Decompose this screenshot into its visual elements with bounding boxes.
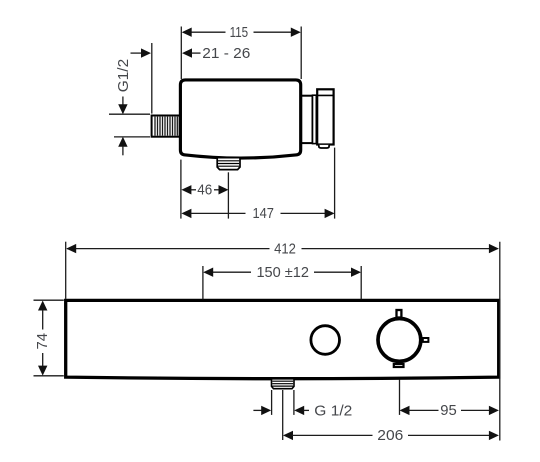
svg-text:46: 46: [197, 182, 212, 199]
extension line wall plane (21-26): [151, 43, 153, 114]
extension line right of body top (115): [300, 27, 302, 80]
dial bottom tab: [394, 364, 404, 367]
svg-text:206: 206: [377, 427, 403, 444]
svg-text:G 1/2: G 1/2: [314, 402, 352, 419]
extension line body left bottom (46 / 147): [180, 160, 182, 219]
svg-text:150 ±12: 150 ±12: [256, 264, 309, 281]
end cap bottom tab: [319, 145, 329, 148]
extension line 74 bottom: [34, 375, 64, 377]
extension line outlet centre (206): [282, 390, 284, 440]
extension line 150 left: [202, 266, 204, 299]
extension line outlet centre (46 / 147): [227, 172, 229, 218]
thermostat dial (large circle): [378, 319, 421, 362]
thin ring piece: [313, 95, 317, 143]
extension line outlet right: [293, 390, 295, 415]
dimension 21 - 26: [131, 45, 251, 62]
svg-text:G1/2: G1/2: [115, 59, 132, 93]
dimension 115: [182, 24, 301, 41]
extension line outlet left: [271, 390, 273, 415]
bottom outlet thread (front view): [272, 379, 295, 389]
extension line left of body top (115 / 21-26): [180, 27, 182, 80]
svg-text:21 - 26: 21 - 26: [202, 45, 250, 62]
dimension 46: [181, 182, 228, 199]
svg-text:412: 412: [274, 240, 296, 257]
dimension 147: [181, 205, 334, 222]
extension line dial centre (95): [399, 380, 401, 415]
outlet width dimension + G 1/2 label: [253, 402, 352, 419]
G1/2 vertical dimension arrows + extension lines: [109, 104, 150, 155]
small control button: [311, 326, 340, 355]
end cap / handle (side view): [317, 89, 333, 144]
svg-text:115: 115: [230, 24, 249, 41]
extension line cap right (147): [334, 148, 336, 219]
dimension 150 ±12: [203, 264, 361, 281]
dimension 95: [400, 402, 499, 419]
svg-text:74: 74: [34, 333, 51, 350]
dimension 206: [283, 427, 499, 444]
shower tablet body (front view): [66, 300, 499, 378]
extension line body right (412 / 95 / 206): [499, 242, 501, 441]
wall supply pipe G1/2 (threaded, side view): [152, 116, 180, 137]
G1/2 label (rotated) with leader: [115, 59, 132, 113]
svg-text:147: 147: [252, 205, 274, 222]
svg-text:95: 95: [440, 402, 457, 419]
dimension 412: [66, 240, 499, 257]
extension line 74 top: [34, 299, 64, 301]
dimension 74 (vertical): [34, 301, 51, 376]
extension line body left top (412): [65, 242, 67, 299]
dial top tab: [397, 310, 402, 318]
dial right tab: [423, 338, 429, 342]
connector step piece (right of body): [301, 96, 312, 143]
bottom outlet thread (side view): [217, 158, 240, 170]
valve body (side view): [180, 80, 300, 158]
extension line 150 right: [360, 266, 362, 299]
